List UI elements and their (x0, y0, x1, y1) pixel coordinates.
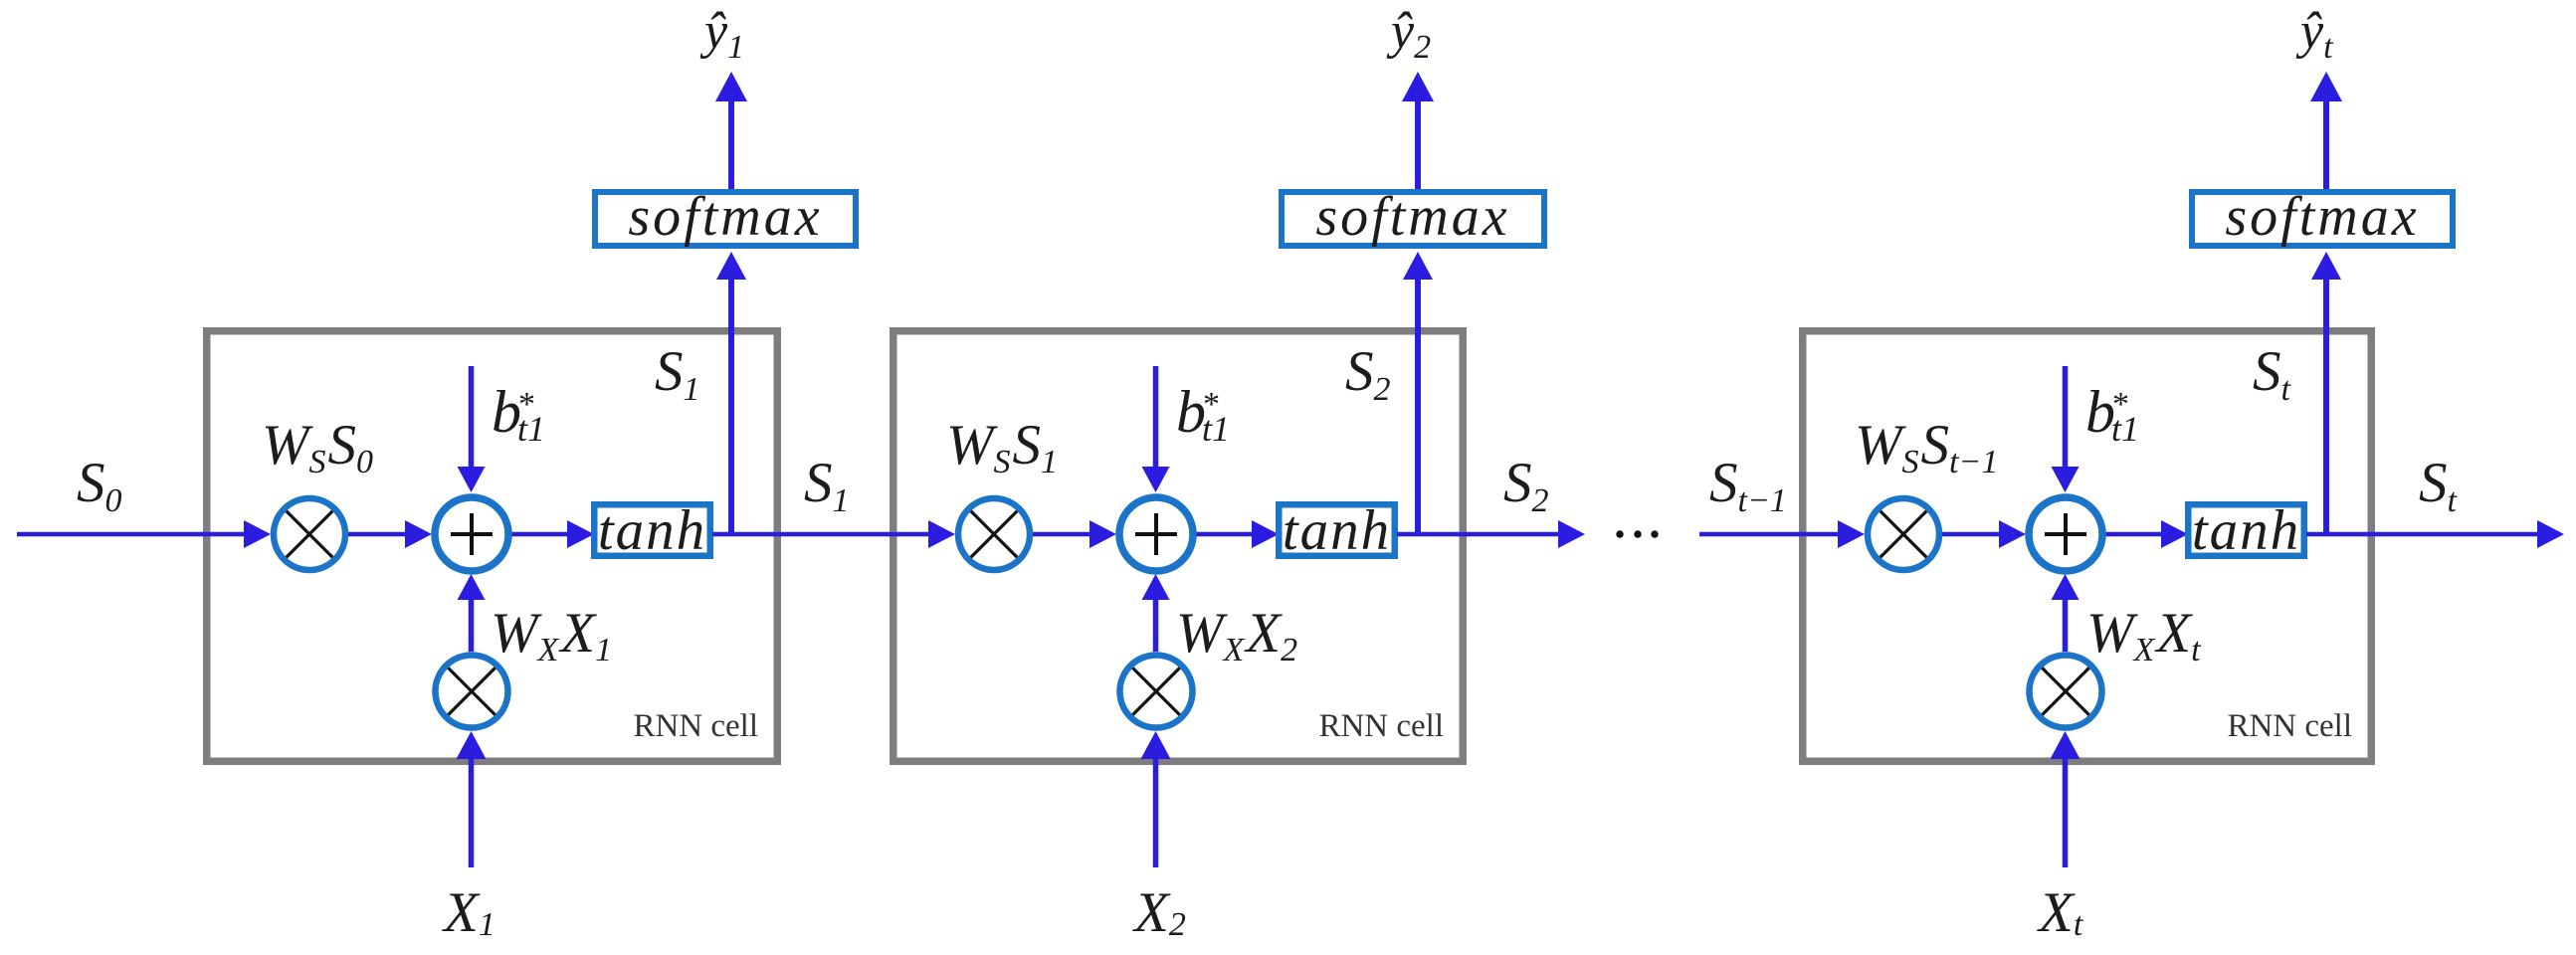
svg-text:WSSt−1: WSSt−1 (1855, 414, 1998, 480)
svg-text:St−1: St−1 (1709, 452, 1787, 519)
svg-text:t1: t1 (2111, 409, 2139, 449)
svg-text:t1: t1 (1202, 409, 1230, 449)
svg-text:RNN cell: RNN cell (2227, 708, 2352, 744)
svg-text:S2: S2 (1345, 340, 1391, 408)
svg-text:ŷ1: ŷ1 (699, 3, 744, 66)
svg-text:S2: S2 (1503, 452, 1549, 519)
svg-text:S1: S1 (655, 340, 700, 408)
svg-text:S1: S1 (804, 452, 850, 519)
svg-text:t1: t1 (517, 409, 545, 449)
svg-text:RNN cell: RNN cell (1318, 708, 1444, 744)
svg-text:tanh: tanh (1283, 499, 1391, 562)
svg-text:softmax: softmax (1315, 186, 1509, 248)
svg-text:softmax: softmax (2225, 186, 2419, 248)
svg-text:WXXt: WXXt (2086, 602, 2202, 668)
svg-text:WSS1: WSS1 (946, 414, 1058, 480)
svg-text:X1: X1 (442, 881, 495, 944)
svg-text:X2: X2 (1132, 881, 1186, 944)
svg-text:St: St (2419, 452, 2459, 519)
svg-text:softmax: softmax (628, 186, 822, 248)
svg-text:S0: S0 (77, 452, 122, 519)
svg-text:ŷ2: ŷ2 (1386, 3, 1431, 66)
svg-text:WXX1: WXX1 (491, 602, 612, 668)
svg-text:WXX2: WXX2 (1176, 602, 1297, 668)
svg-text:St: St (2253, 340, 2292, 408)
svg-text:RNN cell: RNN cell (633, 708, 758, 744)
svg-text:tanh: tanh (598, 499, 706, 562)
svg-text:ŷt: ŷt (2295, 3, 2334, 66)
svg-text:WSS0: WSS0 (262, 414, 373, 480)
svg-text:tanh: tanh (2192, 499, 2300, 562)
svg-text:Xt: Xt (2037, 881, 2084, 944)
